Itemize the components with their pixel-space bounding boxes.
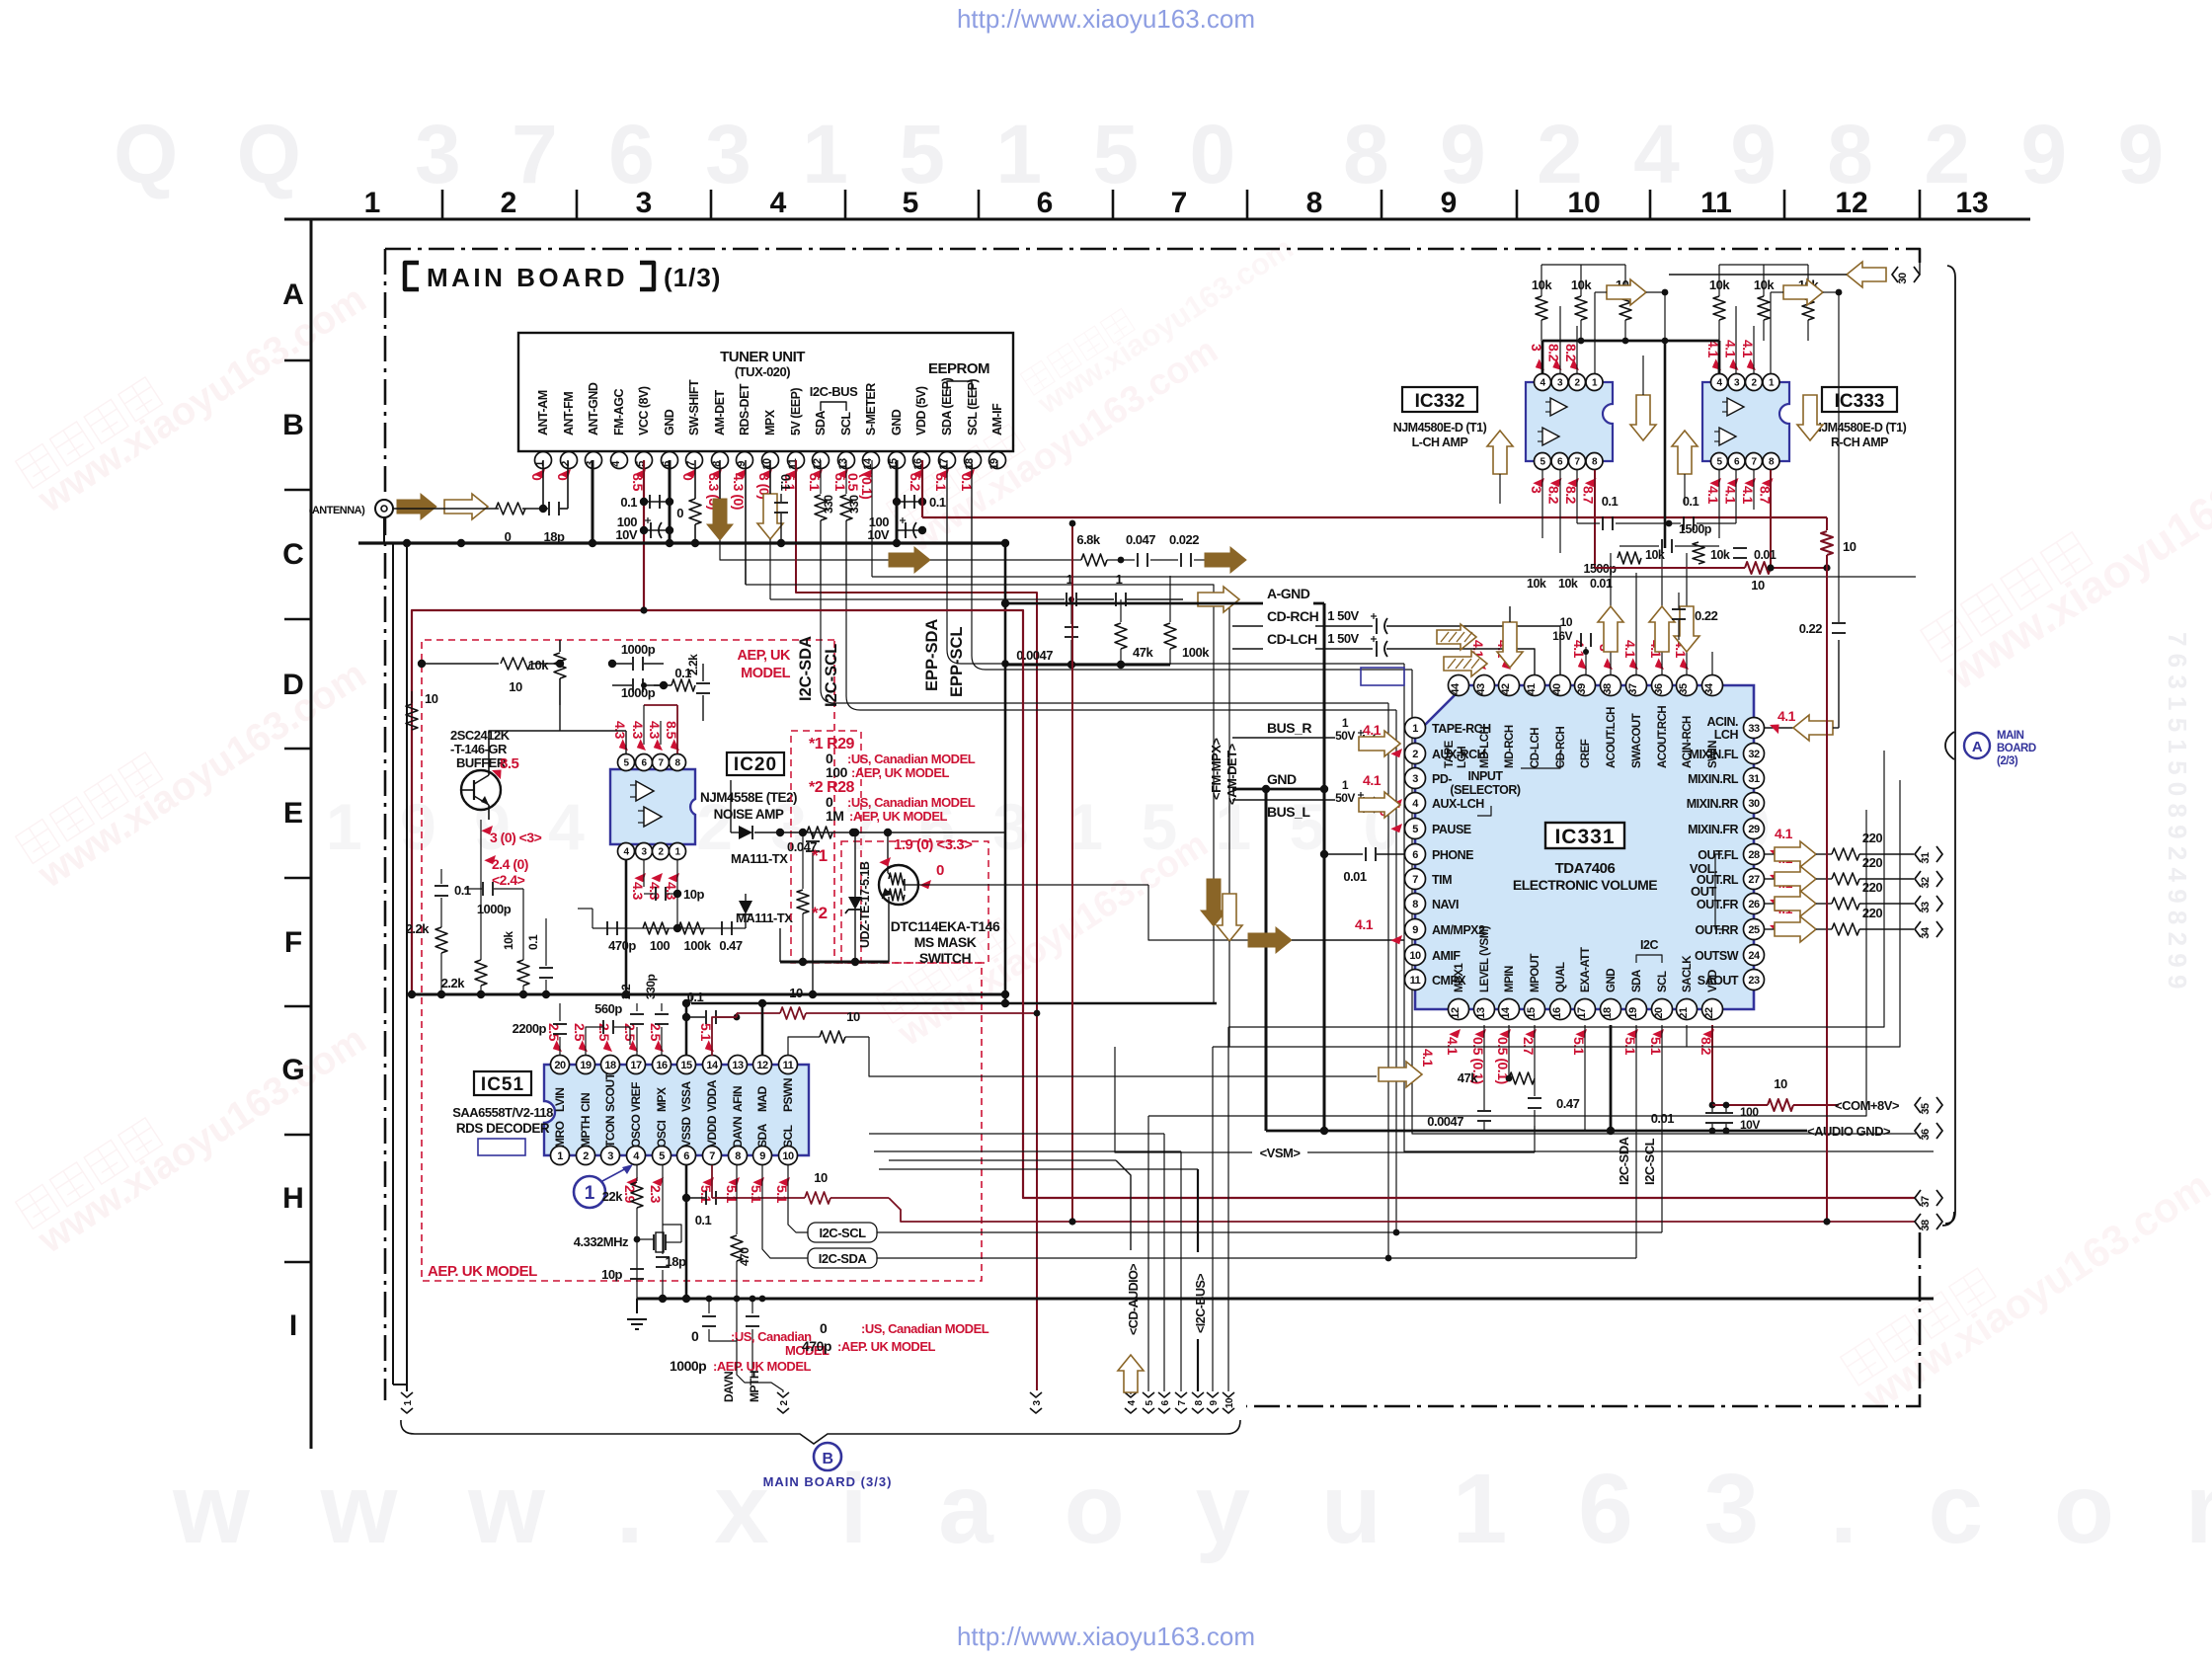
svg-text:SDA: SDA	[814, 411, 828, 436]
maroon branch 1086	[1071, 523, 1073, 1222]
resistor 0 pin7	[694, 460, 696, 499]
svg-text:<AM-DET>: <AM-DET>	[1224, 743, 1239, 805]
svg-text:AEP, UK: AEP, UK	[738, 648, 791, 664]
svg-text:30: 30	[1897, 273, 1909, 284]
svg-text:23: 23	[1748, 975, 1760, 987]
svg-text:0.47: 0.47	[1556, 1096, 1580, 1111]
ground sym ic51	[636, 1299, 638, 1313]
svg-text:<FM-MPX>: <FM-MPX>	[1209, 738, 1224, 800]
svg-text:38: 38	[1602, 683, 1614, 695]
wire weave 5	[1213, 780, 1900, 1047]
wire conn6	[1163, 1134, 1165, 1391]
svg-text:31: 31	[1748, 773, 1760, 785]
border row ticks	[284, 359, 311, 362]
svg-text:10: 10	[789, 986, 803, 1000]
svg-text:-T-146-GR: -T-146-GR	[450, 742, 508, 756]
svg-text:8.2: 8.2	[1546, 344, 1562, 362]
wire left vert bus	[406, 543, 408, 1385]
svg-text:30: 30	[1748, 798, 1760, 810]
svg-text:8: 8	[735, 1150, 741, 1162]
svg-text:0.1: 0.1	[620, 495, 637, 510]
tuner pins 1-19	[535, 452, 552, 469]
wire gnd thick ic331	[1610, 1025, 1613, 1131]
svg-text:F: F	[284, 926, 302, 959]
wire weave 1	[869, 1133, 1164, 1135]
svg-text:220: 220	[1862, 855, 1882, 870]
connector 38	[1915, 1214, 1921, 1229]
antenna series capacitor 18p	[522, 508, 548, 510]
red 3(0) at Q base	[481, 823, 496, 837]
svg-text:100k: 100k	[684, 938, 712, 953]
svg-text:37: 37	[1627, 683, 1639, 695]
svg-text:MODEL: MODEL	[741, 666, 791, 681]
arrow ic333 down	[1797, 395, 1823, 440]
IC331 option rect	[1361, 668, 1404, 685]
wire mad thick	[761, 1003, 764, 1056]
svg-text:1: 1	[1412, 723, 1418, 735]
svg-text:10p: 10p	[683, 887, 704, 902]
capacitor 0.1 tuner vdd	[897, 501, 922, 503]
svg-text:35: 35	[1920, 1103, 1932, 1115]
arrow am-mpx2 filled	[1248, 927, 1292, 953]
wire Q emitter down	[488, 805, 490, 820]
wire davn down	[736, 1165, 738, 1234]
svg-text:560p: 560p	[594, 1001, 622, 1016]
svg-text:3: 3	[607, 1150, 613, 1162]
svg-text:10: 10	[782, 1150, 794, 1162]
svg-text:AM-IF: AM-IF	[990, 403, 1004, 436]
wire ic332 pin4 up	[1541, 341, 1544, 373]
antenna arrow outline	[444, 494, 488, 519]
svg-text:16V: 16V	[1552, 629, 1572, 643]
IC331 right pins 33-23	[1744, 718, 1765, 739]
svg-text:NJM4580E-D (T1): NJM4580E-D (T1)	[1813, 421, 1907, 435]
wire pin9 rds drop	[745, 460, 747, 585]
diode MA111-TX upper	[731, 831, 739, 833]
svg-text:2.2k: 2.2k	[406, 921, 431, 936]
capacitor 0.0047 mid	[1070, 599, 1072, 624]
wire acin rch down arrow	[1686, 553, 1688, 674]
wire conn10	[1227, 1027, 1229, 1391]
svg-text:13: 13	[837, 458, 849, 470]
svg-text:1000p: 1000p	[477, 902, 512, 916]
svg-text:A-GND: A-GND	[1267, 586, 1310, 601]
svg-text:SACLK: SACLK	[1682, 955, 1694, 992]
svg-text:25: 25	[1748, 924, 1760, 936]
svg-text:6: 6	[1412, 849, 1418, 861]
svg-text:100: 100	[826, 764, 848, 780]
wire ic332 pins up	[1559, 306, 1561, 373]
svg-text:MAD: MAD	[755, 1085, 769, 1112]
wire conn7	[1180, 1151, 1182, 1391]
svg-text:A: A	[282, 278, 304, 311]
svg-text:10: 10	[425, 691, 438, 706]
capacitor 18p	[662, 1165, 664, 1254]
svg-text:VREF: VREF	[629, 1082, 643, 1112]
svg-text:4.1: 4.1	[1363, 722, 1382, 738]
svg-text:GND: GND	[1267, 771, 1297, 787]
capacitor 330p mpx	[661, 1027, 663, 1056]
arrow am-det down outline	[1217, 894, 1242, 941]
svg-text:CD-LCH: CD-LCH	[1267, 631, 1317, 647]
svg-text:10: 10	[1560, 615, 1573, 629]
IC51 pins 1-10	[551, 1147, 570, 1165]
svg-text:10: 10	[1774, 1076, 1787, 1091]
svg-text:33: 33	[1748, 723, 1760, 735]
svg-text:ANT-GND: ANT-GND	[587, 382, 600, 436]
wire weave 2	[874, 1150, 1181, 1152]
arrow ic333 up	[1672, 431, 1698, 474]
arrow ic332 fb	[1607, 279, 1646, 305]
svg-text:22: 22	[1703, 1007, 1715, 1019]
svg-text:5: 5	[903, 187, 919, 219]
svg-text:PD-: PD-	[1432, 772, 1452, 786]
wire i2c-scl long	[877, 1231, 1662, 1233]
svg-text:0.47: 0.47	[719, 938, 743, 953]
op-amp IC332 body	[1526, 382, 1613, 461]
capacitor 2200p	[559, 1037, 561, 1056]
svg-text:10: 10	[1843, 539, 1856, 554]
wire pin14 s-meter	[871, 460, 873, 577]
IC331 top pins 44-34	[1449, 675, 1469, 696]
ms ground bus	[780, 961, 889, 964]
arrow fm-det mid	[889, 547, 930, 573]
wire weave 6	[1148, 810, 1866, 1116]
wire conn9	[1212, 1047, 1214, 1391]
IC332 red values	[1533, 358, 1547, 373]
A bracket notch	[1945, 732, 1954, 759]
svg-text:CD-RCH: CD-RCH	[1267, 608, 1319, 624]
svg-text:PAUSE: PAUSE	[1432, 823, 1471, 836]
svg-text:18: 18	[964, 458, 976, 470]
svg-text:AM/MPX2: AM/MPX2	[1432, 923, 1485, 937]
svg-text:8.2: 8.2	[1546, 486, 1562, 505]
svg-text:TIM: TIM	[1432, 873, 1452, 887]
svg-text:NJM4580E-D (T1): NJM4580E-D (T1)	[1393, 421, 1487, 435]
svg-text:15: 15	[680, 1060, 692, 1071]
wire I2C-SDA vertical	[821, 520, 1388, 703]
svg-text:VOL.: VOL.	[1690, 861, 1717, 876]
wire pin19 drop	[996, 460, 998, 469]
arrow ic332 down	[1630, 395, 1656, 440]
svg-text:28: 28	[1748, 849, 1760, 861]
svg-text:8: 8	[1412, 899, 1418, 911]
svg-text:(1/3): (1/3)	[664, 263, 721, 292]
IC331 body	[1415, 685, 1754, 1009]
resistor R28 vert	[802, 832, 804, 889]
svg-text:ANT-AM: ANT-AM	[536, 390, 550, 436]
svg-text:VSSD: VSSD	[679, 1116, 693, 1148]
border column ticks	[441, 190, 444, 219]
svg-text:MAIN BOARD (3/3): MAIN BOARD (3/3)	[763, 1474, 893, 1489]
svg-text:1 50V: 1 50V	[1327, 608, 1359, 623]
svg-text:(TUX-020): (TUX-020)	[735, 364, 790, 379]
wire ic333 pins up	[1735, 306, 1737, 373]
IC20 pins 5-8	[618, 754, 635, 771]
svg-text:GND: GND	[663, 409, 676, 436]
svg-text:3 (0) <3>: 3 (0) <3>	[490, 830, 542, 845]
mid gnd bus 673	[1004, 664, 1170, 667]
svg-text:11: 11	[787, 458, 799, 469]
capacitor 100 10V tuner vdd	[897, 529, 922, 531]
svg-text:44: 44	[1450, 682, 1461, 695]
svg-text:330: 330	[847, 495, 861, 514]
svg-text:I2C-SDA: I2C-SDA	[797, 636, 815, 701]
bottom bracket	[401, 1420, 1240, 1444]
arrow bus_r outline	[1359, 731, 1400, 756]
svg-text:4.1: 4.1	[1445, 1037, 1461, 1056]
right bracket	[1945, 266, 1955, 1224]
svg-text:BUS_L: BUS_L	[1267, 804, 1310, 820]
op-amp triangle IC20 b	[644, 807, 662, 827]
capacitor 0.1 mpx	[780, 494, 782, 502]
svg-text:13: 13	[1955, 187, 1988, 219]
svg-text:4: 4	[770, 187, 787, 219]
capacitor 2.2 vref	[636, 1027, 638, 1056]
svg-text:VDDD: VDDD	[705, 1115, 719, 1148]
maroon bus 575	[1595, 567, 1745, 569]
svg-text:21: 21	[1678, 1007, 1690, 1019]
svg-text:2: 2	[560, 461, 572, 467]
svg-text:7: 7	[709, 1150, 715, 1162]
wire scl to box	[788, 1165, 808, 1232]
svg-text:3: 3	[1412, 773, 1418, 785]
svg-text:I2C-SCL: I2C-SCL	[1642, 1138, 1657, 1185]
svg-text:38: 38	[1920, 1220, 1932, 1231]
diode MA111-TX lower	[745, 894, 747, 901]
capacitor 0.0047 vsm	[1483, 1078, 1485, 1110]
svg-text:10: 10	[846, 1009, 860, 1024]
svg-text:OUT.FL: OUT.FL	[1698, 848, 1739, 862]
svg-text:470p: 470p	[608, 938, 636, 953]
svg-text:IC333: IC333	[1835, 391, 1885, 412]
svg-text::US, Canadian: :US, Canadian	[731, 1329, 812, 1344]
capacitor 1 mid b	[1077, 598, 1114, 600]
wire pin17 drop	[946, 460, 948, 585]
svg-text:34: 34	[1920, 926, 1932, 939]
svg-text:10: 10	[1224, 1397, 1235, 1408]
svg-text:C: C	[282, 538, 304, 571]
svg-text:100: 100	[650, 938, 670, 953]
svg-text:AM-DET: AM-DET	[713, 390, 727, 436]
svg-text:LVIN: LVIN	[553, 1088, 567, 1112]
svg-text:NOISE AMP: NOISE AMP	[714, 807, 784, 822]
svg-text:100k: 100k	[1182, 645, 1210, 660]
svg-text:36: 36	[1653, 683, 1665, 695]
wire vdd maroon down	[1711, 1025, 1713, 1105]
svg-text:0.1: 0.1	[687, 990, 704, 1004]
svg-text:220: 220	[1862, 831, 1882, 845]
svg-text:20: 20	[554, 1060, 566, 1071]
wire exa att	[1584, 1025, 1586, 1131]
wire fm-mpx lower	[1213, 926, 1215, 1003]
svg-text:18: 18	[1602, 1007, 1614, 1019]
svg-text:1.9 (0) <3.3>: 1.9 (0) <3.3>	[894, 836, 973, 853]
svg-text:19: 19	[1627, 1007, 1639, 1019]
row 470p 100 100k 0.47	[592, 927, 746, 929]
svg-text:36: 36	[1920, 1129, 1932, 1141]
svg-text:E: E	[283, 797, 303, 830]
svg-text:13: 13	[1475, 1007, 1487, 1019]
title MAIN BOARD (1/3)	[405, 263, 419, 289]
svg-text:10k: 10k	[528, 658, 549, 673]
wire i2c-bus	[1197, 1339, 1199, 1391]
wire ic20 pin1 down	[676, 860, 678, 928]
svg-text:<2.4>: <2.4>	[492, 872, 525, 888]
svg-text:http://www.xiaoyu163.com: http://www.xiaoyu163.com	[957, 1622, 1255, 1651]
op-amp IC333 body	[1702, 382, 1789, 461]
svg-text:<VSM>: <VSM>	[1260, 1146, 1302, 1160]
svg-text:16: 16	[656, 1060, 668, 1071]
wires ic333 pins down	[1718, 470, 1720, 538]
svg-text:I2C-SDA: I2C-SDA	[1617, 1136, 1631, 1185]
resistor 100k mid	[1169, 576, 1171, 622]
svg-text:3: 3	[585, 461, 596, 467]
svg-text:4.1: 4.1	[1355, 916, 1374, 932]
svg-text:8.5: 8.5	[500, 755, 519, 772]
svg-text:SWACOUT: SWACOUT	[1631, 713, 1643, 768]
svg-text:330: 330	[822, 495, 835, 514]
svg-text:4.1: 4.1	[1775, 826, 1793, 841]
svg-text:470p: 470p	[802, 1338, 831, 1354]
wire sda down	[1635, 1025, 1637, 1258]
svg-text:6: 6	[1037, 187, 1054, 219]
wire r29 row	[780, 831, 1005, 833]
IC331 top red values	[1474, 658, 1489, 673]
arrow mpx down outline	[757, 494, 783, 539]
svg-text:MA111-TX: MA111-TX	[731, 851, 788, 866]
svg-text:2: 2	[501, 187, 517, 219]
svg-text:RDS DECODER: RDS DECODER	[456, 1121, 550, 1136]
svg-text:1000p: 1000p	[621, 685, 656, 700]
svg-text:DAVN: DAVN	[731, 1117, 745, 1148]
svg-text:0: 0	[691, 1328, 699, 1344]
svg-text:8: 8	[711, 461, 723, 467]
capacitor 10p ic20	[643, 860, 645, 887]
svg-text:0.01: 0.01	[1343, 869, 1367, 884]
capacitor 0.1 mid	[539, 967, 553, 969]
wire vssd down	[685, 1165, 688, 1299]
svg-text:10k: 10k	[1754, 277, 1775, 292]
svg-text:47k: 47k	[1133, 645, 1153, 660]
svg-text:41: 41	[1526, 683, 1538, 695]
svg-text:TCON: TCON	[603, 1116, 617, 1148]
svg-text:10p: 10p	[601, 1267, 622, 1282]
capacitor 0.022 mid	[1150, 559, 1178, 561]
main board dash-dot frame left	[384, 249, 387, 1400]
resistor 10 ic20 top	[422, 663, 499, 665]
svg-text:1: 1	[1342, 716, 1349, 730]
svg-text:0.1: 0.1	[1683, 494, 1699, 509]
svg-text:20: 20	[1653, 1007, 1665, 1019]
arrow bus_l outline	[1359, 792, 1400, 818]
svg-text::US, Canadian MODEL: :US, Canadian MODEL	[861, 1321, 989, 1336]
svg-text:IC331: IC331	[1554, 826, 1615, 848]
wire weave 4	[1228, 751, 1884, 1027]
arrow md down	[1497, 622, 1523, 668]
wire sda to box	[762, 1165, 808, 1258]
svg-text:VDDA: VDDA	[705, 1079, 719, 1112]
IC51 pins 20-11	[551, 1056, 570, 1074]
capacitor 0.22 right b	[1672, 608, 1686, 610]
svg-text:SDA: SDA	[755, 1123, 769, 1148]
arrow fm-mpx down	[1201, 879, 1226, 926]
svg-text:http://www.xiaoyu163.com: http://www.xiaoyu163.com	[957, 4, 1255, 34]
svg-text:AUX-LCH: AUX-LCH	[1432, 797, 1484, 811]
svg-text:I2C-SCL: I2C-SCL	[819, 1226, 866, 1240]
svg-text:BOARD: BOARD	[1997, 743, 2036, 754]
svg-text:39: 39	[1576, 683, 1588, 695]
svg-text:18: 18	[604, 1060, 616, 1071]
mid bus 1016	[691, 1002, 1217, 1005]
svg-text:0.1: 0.1	[1602, 494, 1619, 509]
svg-text:2: 2	[583, 1150, 589, 1162]
svg-text:4.1: 4.1	[1571, 640, 1587, 659]
svg-text:0.1: 0.1	[454, 883, 471, 898]
wire into conn1	[393, 1384, 407, 1386]
svg-text:10: 10	[814, 1170, 828, 1185]
svg-text:I2C-BUS: I2C-BUS	[810, 384, 858, 399]
svg-text:32: 32	[1748, 749, 1760, 760]
svg-text:PSWN: PSWN	[781, 1078, 795, 1112]
svg-text:VDD (5V): VDD (5V)	[914, 386, 928, 436]
wire antenna ground drop	[384, 517, 393, 543]
svg-text:OUTSW: OUTSW	[1695, 949, 1739, 963]
I2C-SDA label box	[808, 1248, 877, 1268]
svg-text:17: 17	[1576, 1007, 1588, 1019]
svg-text:0.1: 0.1	[674, 666, 691, 680]
wire EPP-SCL vertical	[972, 464, 1412, 670]
svg-text:0.01: 0.01	[1651, 1111, 1675, 1126]
main board dash-dot frame right	[1919, 1232, 1922, 1394]
red 41 ammpx	[1390, 932, 1405, 947]
svg-text:GND: GND	[1606, 969, 1618, 992]
svg-text:4.1: 4.1	[1420, 1049, 1436, 1068]
IC51 label box	[474, 1071, 531, 1095]
svg-text:CD-LCH: CD-LCH	[1530, 728, 1541, 768]
wire pin15 gnd drop	[896, 460, 899, 543]
IC331 right red values	[1768, 846, 1782, 859]
svg-text:40: 40	[1551, 683, 1563, 695]
svg-text:0.022: 0.022	[1169, 532, 1199, 547]
svg-text:NJM4558E (TE2): NJM4558E (TE2)	[700, 790, 797, 805]
IC51 top red values	[550, 1040, 565, 1055]
svg-text:*1: *1	[812, 846, 828, 865]
svg-text:0: 0	[676, 506, 683, 520]
svg-text:1: 1	[585, 1183, 595, 1204]
svg-text:VSSA: VSSA	[679, 1080, 693, 1112]
svg-text:7 6 3 1 5 1 5 0 8 9 2 4 9 8 2: 7 6 3 1 5 1 5 0 8 9 2 4 9 8 2 9 9	[2163, 632, 2192, 989]
svg-text:10k: 10k	[1558, 577, 1578, 591]
svg-text:15: 15	[1526, 1007, 1538, 1019]
svg-text:2.2k: 2.2k	[441, 976, 466, 990]
svg-text:0.01: 0.01	[1754, 548, 1777, 562]
svg-text:SCL: SCL	[1657, 971, 1669, 992]
svg-text:IC332: IC332	[1415, 391, 1465, 412]
svg-text:5: 5	[635, 461, 647, 467]
svg-text:1 50V: 1 50V	[1327, 631, 1359, 646]
svg-text:0.22: 0.22	[1695, 608, 1718, 623]
B main board note	[814, 1443, 841, 1470]
A main board note	[1964, 733, 1990, 758]
IC20 label box	[727, 752, 784, 775]
hatched arrow md	[1437, 624, 1476, 650]
svg-text:10: 10	[1751, 578, 1765, 593]
wire I2C-SCL vertical	[846, 520, 1396, 710]
svg-text:2.4 (0): 2.4 (0)	[492, 856, 528, 872]
wire weave 8	[1379, 1062, 1422, 1087]
svg-text:I2C-SCL: I2C-SCL	[823, 644, 840, 707]
